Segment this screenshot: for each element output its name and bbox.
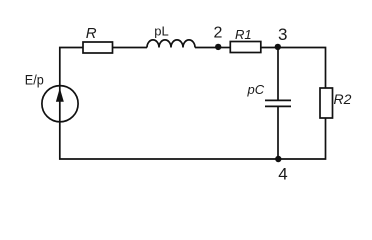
label node 3	[278, 25, 287, 44]
wire R to inductor	[113, 47, 148, 49]
wire top-left segment (node 1 corner to resistor R)	[60, 48, 83, 86]
wire node 3 to top-right corner and down to R2	[278, 48, 326, 89]
svg-text:pL: pL	[154, 23, 168, 38]
label node 2	[214, 25, 223, 42]
svg-text:E/p: E/p	[25, 71, 44, 87]
wire R1 to node 3	[261, 47, 278, 49]
label R1	[235, 27, 252, 42]
svg-text:4: 4	[278, 164, 287, 183]
node 3 junction	[275, 44, 281, 50]
label node 4	[278, 164, 287, 183]
svg-text:R2: R2	[334, 91, 352, 107]
wire inductor to node 2	[195, 47, 218, 49]
label pC	[247, 82, 265, 97]
svg-text:3: 3	[278, 25, 287, 44]
label R	[86, 25, 97, 42]
resistor R2	[320, 88, 333, 118]
wire node 4 to bottom-left corner and up to source	[60, 122, 278, 159]
node 4 junction	[275, 156, 281, 162]
svg-text:R1: R1	[235, 27, 252, 42]
label R2	[334, 91, 352, 107]
resistor R	[83, 42, 113, 53]
wire node 2 to R1	[218, 47, 230, 49]
wire node 3 down to capacitor top plate	[277, 48, 279, 101]
svg-text:pC: pC	[247, 82, 265, 97]
svg-text:2: 2	[214, 25, 223, 42]
svg-text:R: R	[86, 25, 97, 42]
wire R2 to bottom-right corner and left to node 4	[278, 118, 325, 159]
source E/p (EMF source U1)	[42, 86, 78, 122]
node 2 junction	[215, 44, 221, 50]
wire capacitor bottom plate down to node 4	[277, 106, 279, 159]
label E/p	[25, 71, 44, 87]
label pL	[154, 23, 168, 38]
capacitor pC	[265, 100, 291, 106]
resistor R1	[230, 42, 260, 53]
inductor pL	[147, 40, 195, 48]
